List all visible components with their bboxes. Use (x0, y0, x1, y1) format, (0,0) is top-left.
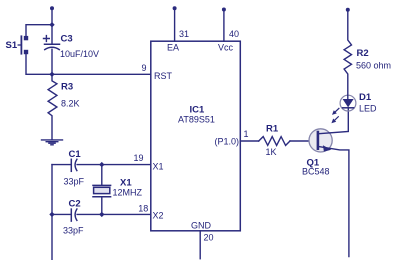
LED D1 (331, 95, 356, 123)
svg-text:33pF: 33pF (64, 177, 85, 187)
node EA endpoint (173, 6, 177, 10)
wire rail from top node down to C3 (51, 8, 53, 44)
svg-text:AT89S51: AT89S51 (178, 115, 215, 125)
resistor R2 (344, 10, 351, 96)
node Vcc endpoint (222, 8, 226, 12)
svg-text:Vcc: Vcc (218, 43, 234, 53)
resistor R1 (259, 137, 290, 146)
svg-text:18: 18 (138, 204, 148, 214)
capacitor C2 (71, 209, 77, 221)
svg-text:C1: C1 (69, 149, 82, 160)
svg-text:10uF/10V: 10uF/10V (60, 49, 99, 59)
node top-left endpoint (50, 6, 54, 10)
svg-text:EA: EA (167, 43, 179, 53)
wire junction to RST pin 9 (52, 73, 151, 75)
node junction left rail/C2 (49, 212, 54, 217)
svg-text:R2: R2 (357, 48, 369, 59)
switch S1 (18, 36, 28, 54)
node junction X1/C2 (99, 212, 104, 217)
resistor R3 (48, 74, 57, 139)
svg-text:8.2K: 8.2K (61, 99, 80, 109)
svg-text:(P1.0): (P1.0) (215, 136, 240, 146)
wire S1 top contact to rail (26, 25, 52, 36)
wire S1 bottom contact to junction (26, 54, 52, 74)
svg-text:1: 1 (244, 129, 249, 139)
wire GND pin 20 (199, 231, 201, 259)
svg-text:R1: R1 (266, 124, 279, 135)
capacitor C3 (44, 36, 60, 50)
node junction C1/X1 (99, 162, 104, 167)
wire C1 row right segment to pin 19 (77, 164, 151, 166)
svg-text:20: 20 (204, 233, 214, 243)
svg-text:LED: LED (359, 104, 377, 114)
svg-text:19: 19 (134, 153, 144, 163)
IC IC1 AT89S51 body (151, 41, 241, 231)
wire crystal left rail (51, 165, 53, 260)
wire EA pin 31 (174, 8, 176, 41)
svg-text:GND: GND (191, 221, 212, 231)
svg-text:BC548: BC548 (302, 167, 330, 177)
svg-text:31: 31 (179, 29, 189, 39)
svg-text:C3: C3 (61, 33, 73, 44)
svg-text:X1: X1 (153, 162, 164, 172)
transistor Q1 BC548 (309, 108, 349, 257)
capacitor C1 (71, 159, 77, 171)
svg-text:33pF: 33pF (63, 226, 84, 236)
wire C2 row left segment (52, 213, 71, 215)
crystal X1 (93, 165, 111, 215)
svg-text:12MHZ: 12MHZ (113, 188, 143, 198)
ground (42, 140, 63, 145)
wire C2 row right segment to pin 18 (77, 213, 151, 215)
wire R1 to Q1 base (290, 140, 317, 142)
svg-text:R3: R3 (61, 82, 73, 93)
svg-text:D1: D1 (359, 92, 372, 103)
wire C3 bottom lead to junction (51, 49, 53, 74)
wire C1 row left segment (52, 164, 71, 166)
wire R2 top node (346, 8, 350, 12)
wire Vcc pin 40 (223, 10, 225, 42)
svg-text:S1: S1 (6, 40, 18, 51)
svg-text:40: 40 (229, 29, 239, 39)
svg-text:9: 9 (142, 63, 147, 73)
svg-text:X2: X2 (153, 211, 164, 221)
node junction RST/R3 (49, 72, 54, 77)
svg-text:1K: 1K (266, 147, 277, 157)
svg-text:C2: C2 (69, 199, 81, 210)
svg-text:RST: RST (154, 71, 173, 81)
wire pin 1 stub P1.0 (240, 140, 258, 142)
svg-text:560 ohm: 560 ohm (356, 61, 391, 71)
node junction S1 top tap (49, 22, 54, 27)
